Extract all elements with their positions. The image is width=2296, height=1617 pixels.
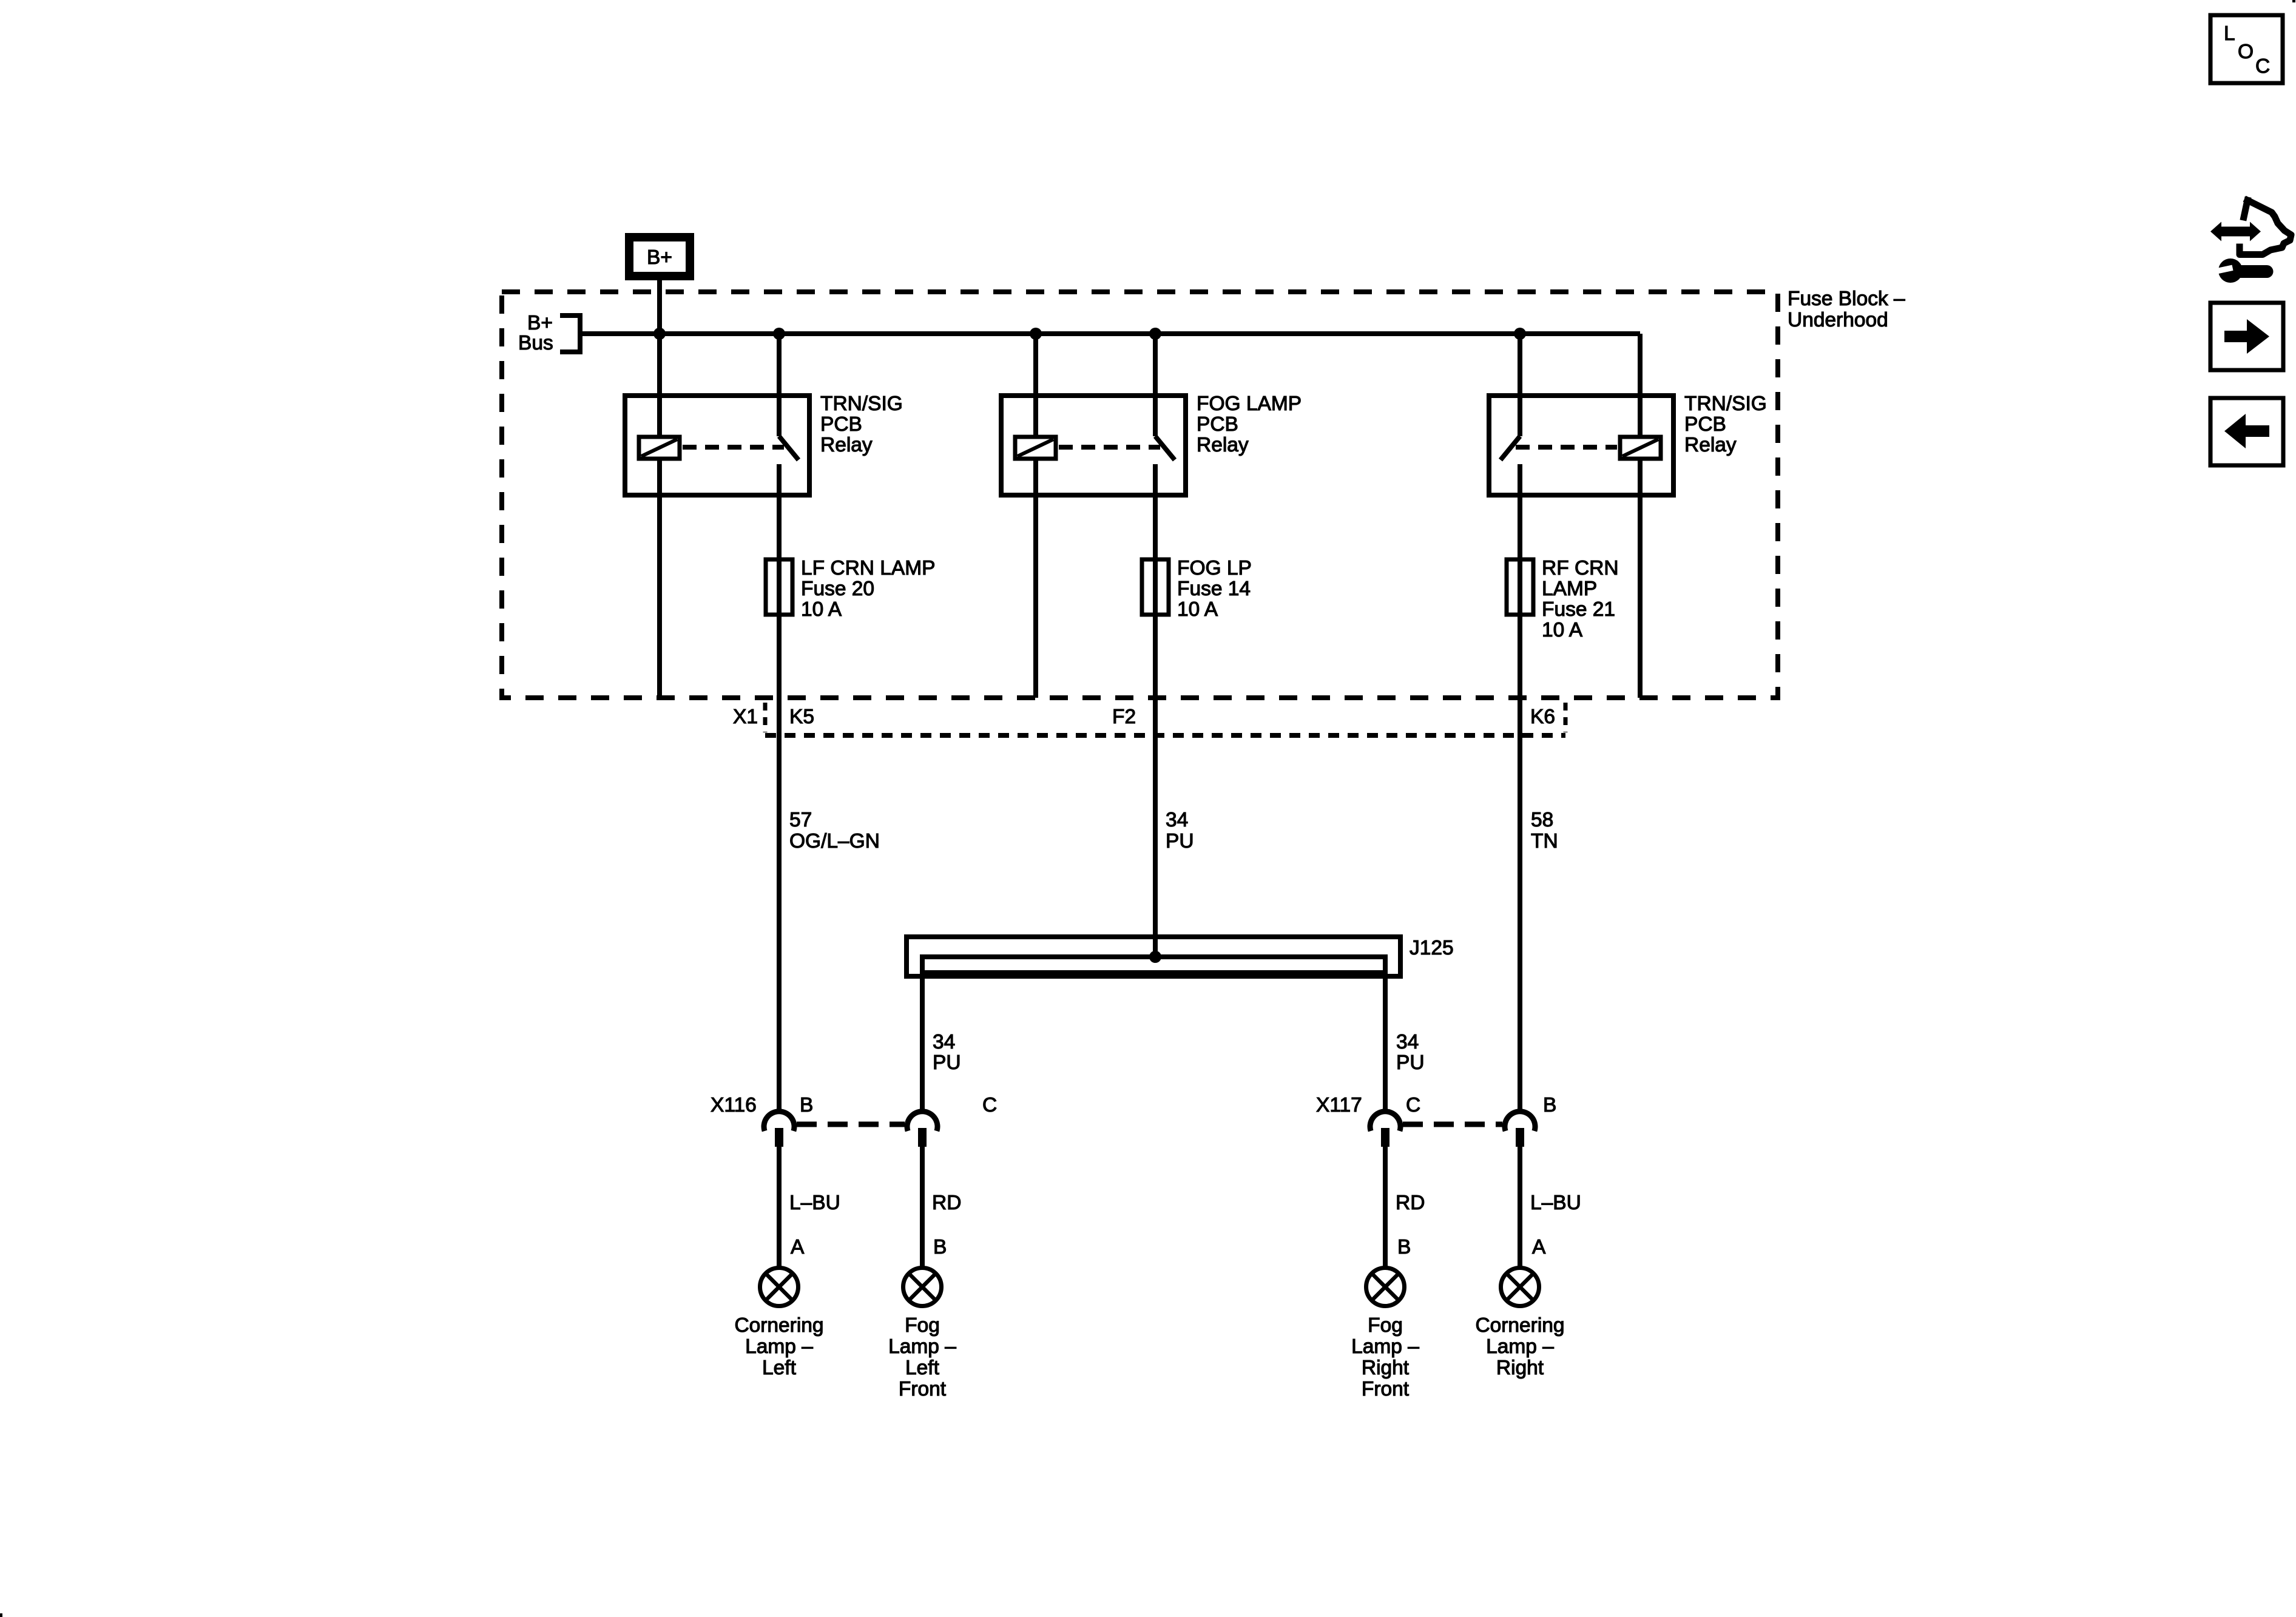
wire J125 to X116-C xyxy=(920,973,925,1112)
wire B+ bus rail xyxy=(580,331,1640,336)
svg-text:Fuse 14: Fuse 14 xyxy=(1177,578,1251,600)
svg-text:Fog: Fog xyxy=(905,1314,940,1337)
svg-text:TRN/SIG: TRN/SIG xyxy=(820,393,903,415)
label relay K5 xyxy=(820,393,903,456)
svg-text:B: B xyxy=(800,1094,813,1116)
wire bus to fog relay switch xyxy=(1153,334,1158,436)
svg-text:10 A: 10 A xyxy=(801,598,842,621)
label relay F2 xyxy=(1197,393,1302,456)
svg-text:LAMP: LAMP xyxy=(1542,578,1597,600)
wire X116-C to fog lamp left front xyxy=(920,1147,925,1267)
wire fog relay switch through fuse 14 to splice J125 xyxy=(1153,464,1158,957)
svg-text:Right: Right xyxy=(1362,1357,1410,1379)
svg-text:Front: Front xyxy=(899,1378,947,1400)
svg-text:B+: B+ xyxy=(647,246,672,269)
svg-text:Right: Right xyxy=(1496,1357,1544,1379)
svg-text:PU: PU xyxy=(1166,830,1194,852)
wire B+ feed down to K5 relay coil xyxy=(657,280,662,437)
svg-text:K5: K5 xyxy=(789,706,814,728)
svg-text:L–BU: L–BU xyxy=(789,1192,840,1214)
svg-text:Lamp –: Lamp – xyxy=(745,1335,813,1358)
label Fuse Block - Underhood xyxy=(1788,288,1905,331)
svg-text:PU: PU xyxy=(933,1052,961,1074)
svg-text:B: B xyxy=(1397,1236,1411,1258)
label circuit 34 PU left branch xyxy=(933,1031,961,1074)
svg-text:OG/L–GN: OG/L–GN xyxy=(789,830,880,852)
junction bus / K6 switch feed xyxy=(1514,328,1526,340)
svg-text:Lamp –: Lamp – xyxy=(1486,1335,1554,1358)
svg-text:L: L xyxy=(2224,22,2235,45)
junction bus / F2 relay coil feed xyxy=(1030,328,1042,340)
svg-text:34: 34 xyxy=(1396,1031,1419,1053)
svg-text:PCB: PCB xyxy=(1684,413,1726,436)
fuse F14 symbol xyxy=(1142,559,1169,615)
svg-text:A: A xyxy=(1532,1236,1546,1258)
label fuse 21 RF CRN LAMP 10 A xyxy=(1542,557,1619,641)
svg-text:Lamp –: Lamp – xyxy=(888,1335,956,1358)
svg-text:FOG LP: FOG LP xyxy=(1177,557,1252,579)
svg-text:F2: F2 xyxy=(1112,706,1136,728)
connector X116 cavity B terminal xyxy=(764,1112,794,1147)
connector X1 right separator xyxy=(1564,703,1568,732)
LOC legend box xyxy=(2210,15,2283,83)
dashed tie X116 B-C xyxy=(797,1122,905,1127)
svg-text:K6: K6 xyxy=(1530,706,1555,728)
forward arrow box xyxy=(2210,303,2283,370)
svg-text:58: 58 xyxy=(1531,809,1553,831)
svg-text:34: 34 xyxy=(933,1031,955,1053)
wire K5 switch through fuse 20 to connector X116-B xyxy=(777,464,782,1112)
relay K5 (TRN/SIG PCB Relay) xyxy=(625,396,809,495)
wire X117-C to fog lamp right front xyxy=(1383,1147,1388,1267)
svg-text:L–BU: L–BU xyxy=(1530,1192,1581,1214)
wire X116-B to cornering lamp left xyxy=(777,1147,782,1267)
svg-text:RD: RD xyxy=(1396,1192,1425,1214)
connector X117 cavity B terminal xyxy=(1505,1112,1535,1147)
svg-text:TN: TN xyxy=(1531,830,1558,852)
B+ power symbol xyxy=(629,237,690,276)
svg-text:A: A xyxy=(791,1236,805,1258)
connector X1 left separator xyxy=(763,703,768,732)
connector X1 dashed strip xyxy=(765,733,1565,738)
wire fog relay coil to block edge xyxy=(1033,459,1038,698)
wire J125 to X117-C xyxy=(1383,973,1388,1112)
svg-text:Relay: Relay xyxy=(1197,434,1249,456)
label Cornering Lamp - Left xyxy=(734,1314,823,1379)
svg-text:FOG LAMP: FOG LAMP xyxy=(1197,393,1302,415)
svg-text:Front: Front xyxy=(1362,1378,1410,1400)
svg-text:X116: X116 xyxy=(711,1094,757,1116)
wire bus corner down to K6 relay coil xyxy=(1638,334,1643,437)
back arrow box xyxy=(2210,398,2283,465)
junction bus / K5 coil feed xyxy=(653,328,666,340)
svg-text:PU: PU xyxy=(1396,1052,1425,1074)
wire K6 switch through fuse 21 to connector X117-B xyxy=(1518,464,1522,1112)
relay F2 (FOG LAMP PCB Relay) xyxy=(1001,396,1186,495)
svg-text:34: 34 xyxy=(1166,809,1188,831)
svg-text:Left: Left xyxy=(762,1357,797,1379)
svg-text:B: B xyxy=(933,1236,947,1258)
svg-text:57: 57 xyxy=(789,809,812,831)
wire bus to K6 relay switch xyxy=(1518,334,1522,436)
svg-text:LF CRN LAMP: LF CRN LAMP xyxy=(801,557,936,579)
svg-text:B+: B+ xyxy=(527,312,553,334)
svg-text:C: C xyxy=(982,1094,997,1116)
connector X116 cavity C terminal xyxy=(907,1112,937,1147)
svg-text:Lamp –: Lamp – xyxy=(1351,1335,1419,1358)
svg-text:X1: X1 xyxy=(733,706,758,728)
label relay K6 xyxy=(1684,393,1767,456)
svg-text:Cornering: Cornering xyxy=(734,1314,823,1337)
wire bus to K5 relay switch xyxy=(777,334,782,436)
junction J125 input xyxy=(1149,951,1161,963)
svg-text:10 A: 10 A xyxy=(1177,598,1218,621)
relay K6 (TRN/SIG PCB Relay, mirrored) xyxy=(1489,396,1673,495)
connector X117 cavity C terminal xyxy=(1370,1112,1400,1147)
fuse F21 symbol xyxy=(1507,559,1533,615)
dashed tie X117 C-B xyxy=(1403,1122,1502,1127)
lamp Fog Lamp - Right Front xyxy=(1366,1268,1405,1306)
svg-text:TRN/SIG: TRN/SIG xyxy=(1684,393,1767,415)
svg-text:X117: X117 xyxy=(1316,1094,1362,1116)
label circuit 57 OG/L-GN xyxy=(789,809,880,852)
svg-text:Left: Left xyxy=(905,1357,940,1379)
svg-text:10 A: 10 A xyxy=(1542,619,1583,641)
svg-text:Cornering: Cornering xyxy=(1475,1314,1564,1337)
Fuse Block - Underhood dashed box xyxy=(502,292,1778,698)
svg-text:RF CRN: RF CRN xyxy=(1542,557,1619,579)
svg-text:Fuse 20: Fuse 20 xyxy=(801,578,874,600)
svg-text:C: C xyxy=(1406,1094,1420,1116)
adjust icon xyxy=(2210,200,2291,283)
wire X117-B to cornering lamp right xyxy=(1518,1147,1522,1267)
lamp Cornering Lamp - Right xyxy=(1501,1268,1539,1306)
svg-text:RD: RD xyxy=(932,1192,961,1214)
label fuse 14 FOG LP 10 A xyxy=(1177,557,1252,621)
svg-text:C: C xyxy=(2255,55,2270,78)
svg-text:Relay: Relay xyxy=(1684,434,1737,456)
lamp Cornering Lamp - Left xyxy=(760,1268,799,1306)
label Fog Lamp - Left Front xyxy=(888,1314,956,1400)
junction bus / F2 relay switch feed xyxy=(1149,328,1161,340)
lamp Fog Lamp - Left Front xyxy=(903,1268,942,1306)
label Cornering Lamp - Right xyxy=(1475,1314,1564,1379)
fuse F20 symbol xyxy=(766,559,792,615)
junction bus / K5 switch feed xyxy=(773,328,785,340)
label circuit 34 PU right branch xyxy=(1396,1031,1425,1074)
svg-text:Underhood: Underhood xyxy=(1788,309,1888,331)
svg-text:Bus: Bus xyxy=(518,332,553,354)
svg-text:J125: J125 xyxy=(1410,937,1454,959)
svg-text:Relay: Relay xyxy=(820,434,873,456)
svg-text:B: B xyxy=(1543,1094,1556,1116)
scan speck top-right xyxy=(2292,0,2295,2)
label Fog Lamp - Right Front xyxy=(1351,1314,1419,1400)
splice pack J125 xyxy=(907,937,1400,976)
wire K6 coil to block edge xyxy=(1638,459,1643,698)
node B+ Bus label and bracket xyxy=(518,312,580,354)
svg-text:PCB: PCB xyxy=(1197,413,1238,436)
svg-text:O: O xyxy=(2238,41,2254,63)
wire K5 coil to block edge xyxy=(657,459,662,698)
label circuit 34 PU xyxy=(1166,809,1194,852)
svg-text:Fog: Fog xyxy=(1368,1314,1403,1337)
label fuse 20 LF CRN LAMP 10 A xyxy=(801,557,936,621)
svg-text:PCB: PCB xyxy=(820,413,862,436)
scan speck bottom-left xyxy=(0,1613,2,1617)
wire bus to fog relay coil xyxy=(1033,334,1038,437)
svg-text:Fuse Block –: Fuse Block – xyxy=(1788,288,1905,310)
svg-text:Fuse 21: Fuse 21 xyxy=(1542,598,1615,621)
label circuit 58 TN xyxy=(1531,809,1558,852)
